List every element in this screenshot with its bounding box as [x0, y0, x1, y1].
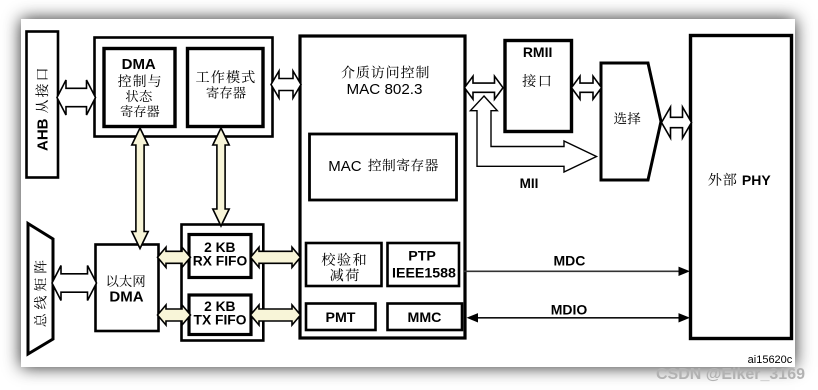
box MAC control registers	[310, 134, 457, 200]
svg-text:DMA: DMA	[109, 289, 143, 306]
arrow regs to ethdma (vertical)	[132, 128, 148, 249]
label yitaiwang	[107, 275, 145, 287]
arrow MAC to RMII	[465, 76, 504, 99]
box FIFO container	[182, 225, 264, 341]
label bus matrix (rotated)	[34, 260, 47, 326]
label kongzhiyu	[118, 74, 161, 87]
svg-text:IEEE1588: IEEE1588	[392, 265, 456, 281]
svg-text:MMC: MMC	[408, 310, 442, 326]
wire MDIO	[470, 317, 686, 319]
arrow container to MAC	[271, 71, 301, 98]
box ethernet DMA	[96, 245, 159, 332]
label zhuangtai	[126, 90, 152, 102]
svg-text:RX FIFO: RX FIFO	[193, 253, 248, 268]
box DMA register container	[95, 38, 273, 137]
shape selector pentagon	[601, 63, 661, 180]
label jiekou	[522, 74, 550, 87]
box PMT	[306, 304, 376, 331]
box 2KB RX FIFO	[189, 235, 251, 278]
label jiaoyanhe	[322, 253, 366, 266]
arrowhead MDC right	[679, 267, 691, 276]
wire MDC	[464, 270, 687, 272]
label gongzuomoshi	[196, 70, 255, 83]
svg-text:MAC 802.3: MAC 802.3	[347, 81, 423, 98]
label jicunqi2	[207, 86, 246, 99]
label jicunqi1	[121, 105, 160, 117]
arrow RMII to selector	[572, 76, 602, 99]
svg-text:MAC: MAC	[328, 158, 362, 175]
arrow AHB to container	[57, 80, 96, 115]
arrow busmatrix to ethdma	[52, 266, 97, 301]
svg-text:MDIO: MDIO	[551, 301, 588, 317]
svg-text:MDC: MDC	[553, 252, 585, 268]
svg-text:RMII: RMII	[523, 44, 553, 60]
box PTP IEEE1588	[388, 243, 460, 286]
box checksum offload	[306, 243, 382, 286]
arrow selector to PHY	[662, 107, 692, 138]
svg-text:CSDN @Eiker_3169: CSDN @Eiker_3169	[656, 366, 805, 383]
arrow ethdma to rxfifo	[158, 247, 191, 267]
label xuanze	[614, 112, 640, 124]
arrow MII path	[470, 96, 596, 172]
box AHB slave interface	[27, 32, 59, 178]
box MMC	[388, 304, 463, 331]
arrowhead MDIO left	[467, 313, 479, 322]
svg-text:MII: MII	[520, 176, 539, 191]
arrowhead MDIO right	[679, 313, 691, 322]
box MAC 802.3	[300, 36, 465, 338]
box DMA control and status registers	[104, 49, 175, 127]
shape bus matrix	[28, 224, 53, 355]
svg-text:ai15620c: ai15620c	[748, 354, 793, 366]
svg-text:PHY: PHY	[742, 172, 771, 188]
svg-text:TX FIFO: TX FIFO	[194, 312, 247, 327]
box 2KB TX FIFO	[189, 295, 251, 335]
svg-text:AHB: AHB	[35, 118, 52, 151]
svg-text:DMA: DMA	[122, 56, 156, 73]
arrow regs to fifo (vertical)	[213, 128, 229, 226]
label jianhe	[330, 268, 359, 281]
label AHB slave interface (rotated)	[35, 69, 52, 151]
arrow ethdma to txfifo	[158, 305, 191, 325]
svg-text:PMT: PMT	[326, 310, 356, 326]
box external PHY	[691, 36, 792, 339]
arrow txfifo to MAC	[251, 305, 301, 325]
label jiezhifangwenkongzhi	[341, 66, 428, 79]
svg-text:PTP: PTP	[408, 249, 436, 265]
label external PHY	[708, 173, 736, 186]
box RMII interface	[505, 41, 572, 132]
arrow rxfifo to MAC	[251, 247, 301, 267]
box work mode registers	[188, 49, 264, 127]
